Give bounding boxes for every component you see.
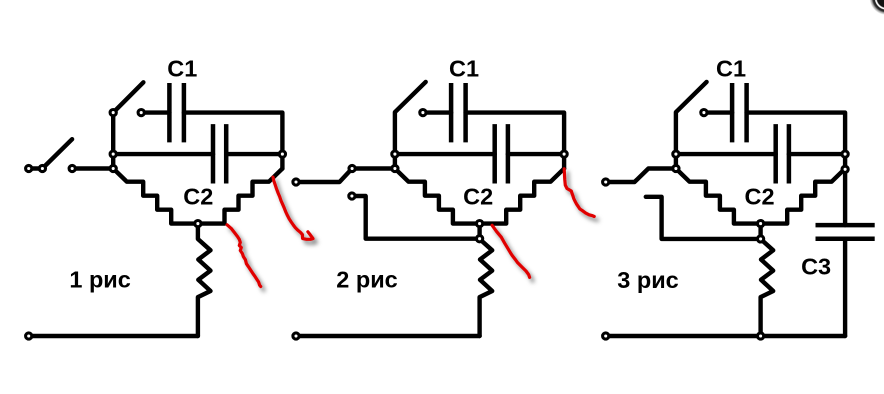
wire: bottom rail (circuit 2)	[296, 334, 480, 338]
node: winding centre tap (circuit 1)	[195, 221, 201, 227]
node: C3 tap junction	[842, 166, 848, 172]
terminal: circuit 3 bottom	[603, 333, 609, 339]
node A2 junction	[392, 165, 398, 171]
corner icon (top right, cropped circle)	[870, 0, 884, 15]
capacitor C3 plates	[816, 225, 875, 239]
capacitor C2 (circuit 2) plates	[495, 124, 508, 183]
node: rail junction right (circuit 2)	[561, 151, 567, 157]
wire: middle rail right of C2 (circuit 2)	[508, 152, 564, 156]
switch S2 blade (open, circuit 1 top)	[113, 82, 143, 112]
capacitor C2 (circuit 1) plates	[213, 124, 226, 183]
switch S1 blade (open, circuit 1 input)	[42, 139, 72, 168]
terminal: circuit 2 input	[293, 179, 299, 185]
svg-text:C1: C1	[167, 55, 197, 81]
circuit 3: input wire with bend	[606, 169, 676, 183]
node: rail junction left (circuit 2)	[392, 151, 398, 157]
switch contact / C1 lead (circuit 2)	[420, 110, 426, 116]
capacitor C1 left lead wire (circuit 3)	[704, 110, 732, 114]
circuit 1: input terminal wire	[29, 166, 43, 170]
wire: middle rail right of C2 (circuit 1)	[226, 152, 282, 156]
wire: C1 right lead down right vertical (circuit 2)	[466, 113, 564, 169]
switch S1 pivot contact	[39, 165, 45, 171]
wire: middle rail left of C2 (circuit 1)	[113, 152, 213, 156]
capacitor C1 (circuit 3) plates	[732, 83, 747, 142]
wire: C3 bottom lead	[843, 239, 847, 336]
wire: open stub to centre tap (circuit 3)	[646, 197, 761, 239]
node: tap junction (circuit 2)	[477, 236, 483, 242]
switch S1 fixed contact	[69, 165, 75, 171]
node: rail junction left (circuit 3)	[673, 151, 679, 157]
capacitor C1 left lead wire (circuit 1)	[141, 110, 169, 114]
resistor zig-zag with leads (circuit 2)	[480, 224, 493, 336]
wire: middle rail right of C2 (circuit 3)	[789, 152, 845, 156]
resistor zig-zag with leads (circuit 3)	[761, 224, 774, 336]
node: rail junction right (circuit 1)	[279, 151, 285, 157]
switch contact / C1 lead (circuit 3)	[701, 110, 707, 116]
terminal: circuit 2 bottom	[293, 333, 299, 339]
svg-text:2 рис: 2 рис	[336, 267, 397, 293]
wire+switch blade: left vertical and top blade (circuit 3)	[676, 82, 707, 169]
node A3 junction	[673, 165, 679, 171]
svg-text:1 рис: 1 рис	[69, 267, 130, 293]
capacitor C1 (circuit 1) plates	[169, 83, 184, 142]
node: winding centre tap (circuit 3)	[758, 221, 764, 227]
node: rail junction left (circuit 1)	[110, 151, 116, 157]
wire: second input to centre tap (circuit 2)	[352, 196, 480, 239]
red annotation mark 3	[492, 225, 529, 277]
switch S2 pivot contact	[110, 110, 116, 116]
terminal: circuit 1 input	[26, 165, 32, 171]
stepped winding body (circuit 2)	[395, 169, 564, 224]
node: input bend contact (circuit 2)	[349, 165, 355, 171]
switch S2 fixed contact / C1 lead	[138, 110, 144, 116]
wire: left vertical (circuit 1)	[111, 113, 115, 169]
svg-text:C2: C2	[183, 184, 213, 210]
wire+switch blade: left vertical and top blade (circuit 2)	[395, 82, 426, 169]
stepped winding body (circuit 1)	[113, 169, 282, 224]
node: winding centre tap (circuit 2)	[477, 221, 483, 227]
terminal: circuit 1 bottom	[26, 333, 32, 339]
wire: C1 right lead down right vertical (circuit 3)	[747, 113, 846, 226]
node: tap junction (circuit 3)	[758, 236, 764, 242]
svg-text:C3: C3	[801, 253, 831, 279]
terminal: circuit 3 input	[603, 179, 609, 185]
terminal: circuit 2 second input	[349, 193, 355, 199]
red annotation mark 1	[227, 225, 261, 287]
wire: C1 right lead down right vertical (circuit 1)	[184, 113, 283, 169]
node A1 junction	[110, 165, 116, 171]
svg-text:C2: C2	[463, 184, 493, 210]
wire: bottom rail (circuit 1)	[29, 334, 198, 338]
wire: switch S1 to node A1	[72, 166, 113, 170]
resistor zig-zag with leads (circuit 1)	[198, 224, 211, 336]
svg-text:C2: C2	[744, 184, 774, 210]
stepped winding body (circuit 3)	[676, 169, 845, 224]
wire: middle rail left of C2 (circuit 2)	[395, 152, 495, 156]
wire: bottom rail (circuit 3)	[606, 334, 845, 338]
node: resistor-rail junction (circuit 3)	[758, 333, 764, 339]
capacitor C1 (circuit 2) plates	[451, 83, 466, 142]
svg-text:C1: C1	[716, 55, 746, 81]
capacitor C1 left lead wire (circuit 2)	[423, 110, 451, 114]
circuit 2: input wire with bend	[296, 169, 395, 183]
capacitor C2 (circuit 3) plates	[776, 124, 789, 183]
node: rail junction right (circuit 3)	[842, 151, 848, 157]
svg-text:3 рис: 3 рис	[617, 267, 678, 293]
wire: middle rail left of C2 (circuit 3)	[676, 152, 776, 156]
svg-text:C1: C1	[449, 55, 479, 81]
red annotation mark 4	[564, 169, 594, 217]
red annotation mark 2	[273, 177, 313, 239]
